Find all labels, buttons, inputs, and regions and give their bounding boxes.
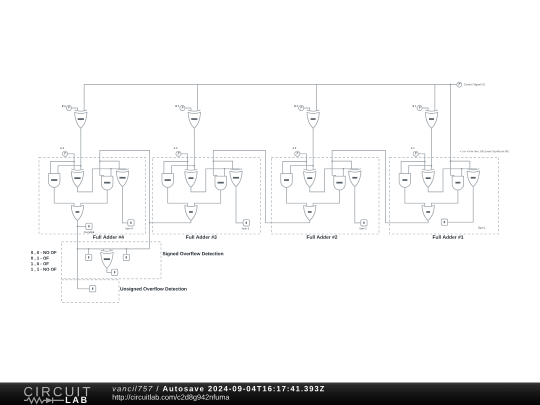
XOR gate XOR5	[304, 169, 316, 187]
input flag A3	[176, 151, 181, 156]
wire Sum 2 from XOR6	[355, 187, 361, 223]
AND gate AND17	[48, 174, 60, 188]
AND gate AND13	[162, 174, 174, 188]
wire A1 rail to AND1	[401, 162, 425, 174]
junction carry-in FA2	[331, 160, 333, 162]
XOR gate XOR14	[116, 169, 128, 187]
footer bar	[0, 383, 540, 405]
junction B net FA3	[194, 165, 196, 167]
AND gate AND1	[399, 174, 411, 188]
wire AND1 output to OR2	[405, 187, 425, 206]
input flag B1	[417, 105, 422, 110]
wire carry-in rail FA2	[332, 161, 351, 169]
wire AND9 output to OR5	[287, 187, 307, 206]
wire S to FA1 carry-in	[450, 84, 452, 161]
terminal CarryOut	[86, 223, 92, 229]
wire Sum 1 from XOR2	[448, 187, 474, 222]
unsigned overflow detection dashed box	[62, 280, 120, 303]
wire A2 to XOR5	[300, 154, 307, 170]
input flag B3	[180, 105, 185, 110]
label Sum 2	[359, 228, 366, 230]
wire B net rail to AND13	[172, 166, 195, 174]
wire stub to signed square 1	[88, 249, 90, 254]
wire CarryOut net	[76, 221, 78, 249]
wire A2 rail to AND9	[283, 162, 307, 174]
wire propagate to AND18	[110, 169, 112, 176]
junction A net FA3	[187, 161, 189, 163]
wire Sum 3 from XOR10	[236, 187, 243, 223]
wire AND2 output to OR2	[432, 190, 458, 207]
footer title text	[113, 386, 153, 392]
wire AND18 output to OR9	[81, 190, 107, 207]
logo CIRCUIT	[24, 387, 90, 396]
wire S bus to XOR7	[315, 84, 317, 110]
AND gate AND14	[215, 176, 227, 190]
wire AND13 output to OR7	[168, 187, 188, 206]
AND gate AND10	[334, 176, 346, 190]
terminal Sum 1	[441, 219, 447, 225]
wire XOR5 output net	[310, 169, 358, 192]
wire XOR11 output down	[193, 128, 195, 169]
wire AND17 output to OR9	[54, 187, 74, 206]
label B4	[62, 105, 66, 107]
wire carry-in to AND18	[100, 161, 104, 176]
label Signed Overflow Detection	[163, 252, 224, 256]
label B2	[294, 105, 298, 107]
terminal signed overflow out	[112, 269, 118, 275]
wire XOR16 input left	[103, 249, 105, 251]
OR gate OR5	[304, 205, 316, 220]
wire carry out to unsigned terminal	[77, 249, 89, 289]
wire XOR7 output down	[312, 128, 314, 169]
terminal Sum 2	[361, 220, 367, 226]
label B3	[176, 105, 180, 107]
junction bus control drop	[450, 84, 452, 86]
wire A3 rail to AND13	[164, 162, 188, 174]
input flag A2	[295, 151, 300, 156]
wire A1 to XOR1	[418, 154, 425, 170]
wire carry-in rail FA4	[100, 161, 119, 169]
label A2	[293, 147, 297, 149]
footer url text	[113, 394, 230, 401]
junction carry-in FA1	[450, 160, 452, 162]
AND gate AND2	[452, 176, 464, 190]
junction A net FA1	[424, 161, 426, 163]
input flag B2	[299, 105, 304, 110]
junction A net FA2	[306, 161, 308, 163]
wire Sum 4 from XOR14	[123, 187, 128, 223]
full adder #3 block	[153, 84, 261, 239]
wire AND14 output to OR7	[194, 190, 220, 207]
junction B net FA2	[312, 165, 314, 167]
full adder #1 dashed box	[390, 157, 499, 234]
label Full Adder #1	[433, 235, 464, 239]
AND gate AND18	[101, 176, 113, 190]
logo LAB	[66, 397, 87, 403]
note overflow truth table	[31, 251, 56, 272]
junction carry into MSB	[149, 222, 151, 224]
wire XOR13 output net	[77, 169, 125, 192]
wire XOR9 output net	[191, 169, 239, 192]
wire B net rail to AND1	[409, 166, 432, 174]
junction B net FA1	[431, 165, 433, 167]
full adder #3 dashed box	[153, 157, 261, 234]
wire carry-in rail FA1	[451, 161, 470, 169]
junction propagate net FA2	[343, 168, 345, 170]
wire carry-in rail FA3	[213, 161, 232, 169]
XOR gate XOR15 (B4 xor S)	[75, 110, 87, 128]
label Control Signal (S)	[464, 83, 485, 86]
junction CarryOut stub	[77, 226, 79, 228]
junction propagate net FA3	[224, 168, 226, 170]
wire A4 rail to AND17	[50, 162, 74, 174]
wire B2 flag to XOR7	[304, 108, 310, 110]
wire propagate to AND10	[342, 169, 344, 176]
junction carry-in FA4	[99, 160, 101, 162]
junction signed rail left	[77, 248, 79, 250]
label CarryOut	[84, 231, 94, 233]
label Sum 1	[478, 227, 485, 229]
terminal Sum 3	[243, 220, 249, 226]
XOR gate XOR13	[71, 169, 83, 187]
wire propagate to AND2	[461, 169, 463, 176]
XOR gate XOR3 (B1 xor S)	[425, 110, 437, 128]
wire XOR3 output down	[431, 128, 433, 169]
label Full Adder #4	[93, 235, 124, 239]
label B1	[413, 105, 417, 107]
input flag B4	[66, 105, 71, 110]
OR gate OR7	[185, 205, 197, 220]
wire A4 to XOR13	[68, 154, 75, 170]
wire S bus to XOR11	[197, 84, 199, 110]
XOR gate XOR6	[349, 169, 361, 187]
wire propagate to AND14	[224, 169, 226, 176]
junction signed sq1 stub	[88, 248, 90, 250]
OR gate OR2	[422, 205, 434, 220]
label Unsigned Overflow Detection	[120, 287, 186, 292]
note +1 or +0 for the LSB	[460, 150, 509, 152]
label Sum 3	[242, 228, 249, 230]
XOR gate XOR1	[422, 169, 434, 187]
junction B net FA4	[80, 165, 82, 167]
wire S bus to XOR15	[83, 84, 85, 110]
label Full Adder #3	[186, 235, 217, 239]
wire MSB carry-in to signed rail	[149, 223, 151, 249]
wire carry FA2 to FA3	[213, 151, 309, 223]
label Sum 4	[125, 228, 132, 230]
logo resistor zigzag	[24, 398, 46, 403]
wire XOR15 output down	[80, 128, 82, 169]
label A1	[411, 147, 415, 149]
input flag Control Signal (S)	[457, 82, 462, 87]
XOR gate XOR9	[185, 169, 197, 187]
full adder #1 block	[390, 84, 499, 238]
input flag A4	[62, 151, 67, 156]
wire control bus S	[84, 83, 457, 85]
OR gate OR9	[71, 205, 83, 220]
logo diode	[46, 398, 53, 404]
wire B net rail to AND9	[290, 166, 313, 174]
wire carry-in to AND10	[332, 161, 336, 176]
label A3	[174, 147, 178, 149]
wire A3 to XOR9	[181, 154, 188, 170]
wire XOR16 output	[107, 268, 112, 272]
AND gate AND9	[281, 174, 293, 188]
wire XOR16 input right	[109, 249, 111, 251]
wire carry-in to AND2	[451, 161, 455, 176]
XOR gate XOR16 signed overflow	[101, 250, 113, 268]
junction signed sq2 stub	[126, 248, 128, 250]
junction carry-in FA3	[213, 160, 215, 162]
junction propagate net FA4	[110, 168, 112, 170]
terminal signed overflow in 1	[86, 254, 92, 260]
wire S bus to XOR3	[434, 84, 436, 110]
terminal Sum 4	[128, 220, 134, 226]
wire carry FA3 to FA4	[100, 151, 191, 223]
wire to CarryOut terminal	[77, 225, 85, 227]
junction propagate net FA1	[461, 168, 463, 170]
terminal unsigned overflow	[90, 286, 96, 292]
XOR gate XOR2	[467, 169, 479, 187]
wire XOR1 output net	[428, 169, 476, 192]
signed overflow detection dashed box	[62, 242, 162, 279]
wire B1 flag to XOR3	[422, 108, 428, 110]
XOR gate XOR7 (B2 xor S)	[307, 110, 319, 128]
wire AND10 output to OR5	[313, 190, 339, 207]
junction A net FA4	[73, 161, 75, 163]
label Full Adder #2	[307, 235, 338, 239]
label A4	[60, 147, 64, 149]
wire signed rail	[77, 248, 149, 250]
full adder #2 dashed box	[271, 157, 379, 234]
full adder #4 dashed box	[39, 157, 146, 234]
full adder #2 block	[271, 84, 379, 238]
wire stub to signed square 2	[125, 249, 127, 254]
wire B net rail to AND17	[58, 166, 81, 174]
wire carry-in to AND14	[213, 161, 217, 176]
XOR gate XOR11 (B3 xor S)	[188, 110, 200, 128]
wire B3 flag to XOR11	[185, 108, 191, 110]
full adder #4 block	[39, 84, 146, 238]
terminal signed overflow in 2	[123, 254, 129, 260]
wire B4 flag to XOR15	[72, 108, 78, 110]
wire carry FA1 to FA2	[332, 151, 428, 223]
XOR gate XOR10	[230, 169, 242, 187]
input flag A1	[413, 151, 418, 156]
